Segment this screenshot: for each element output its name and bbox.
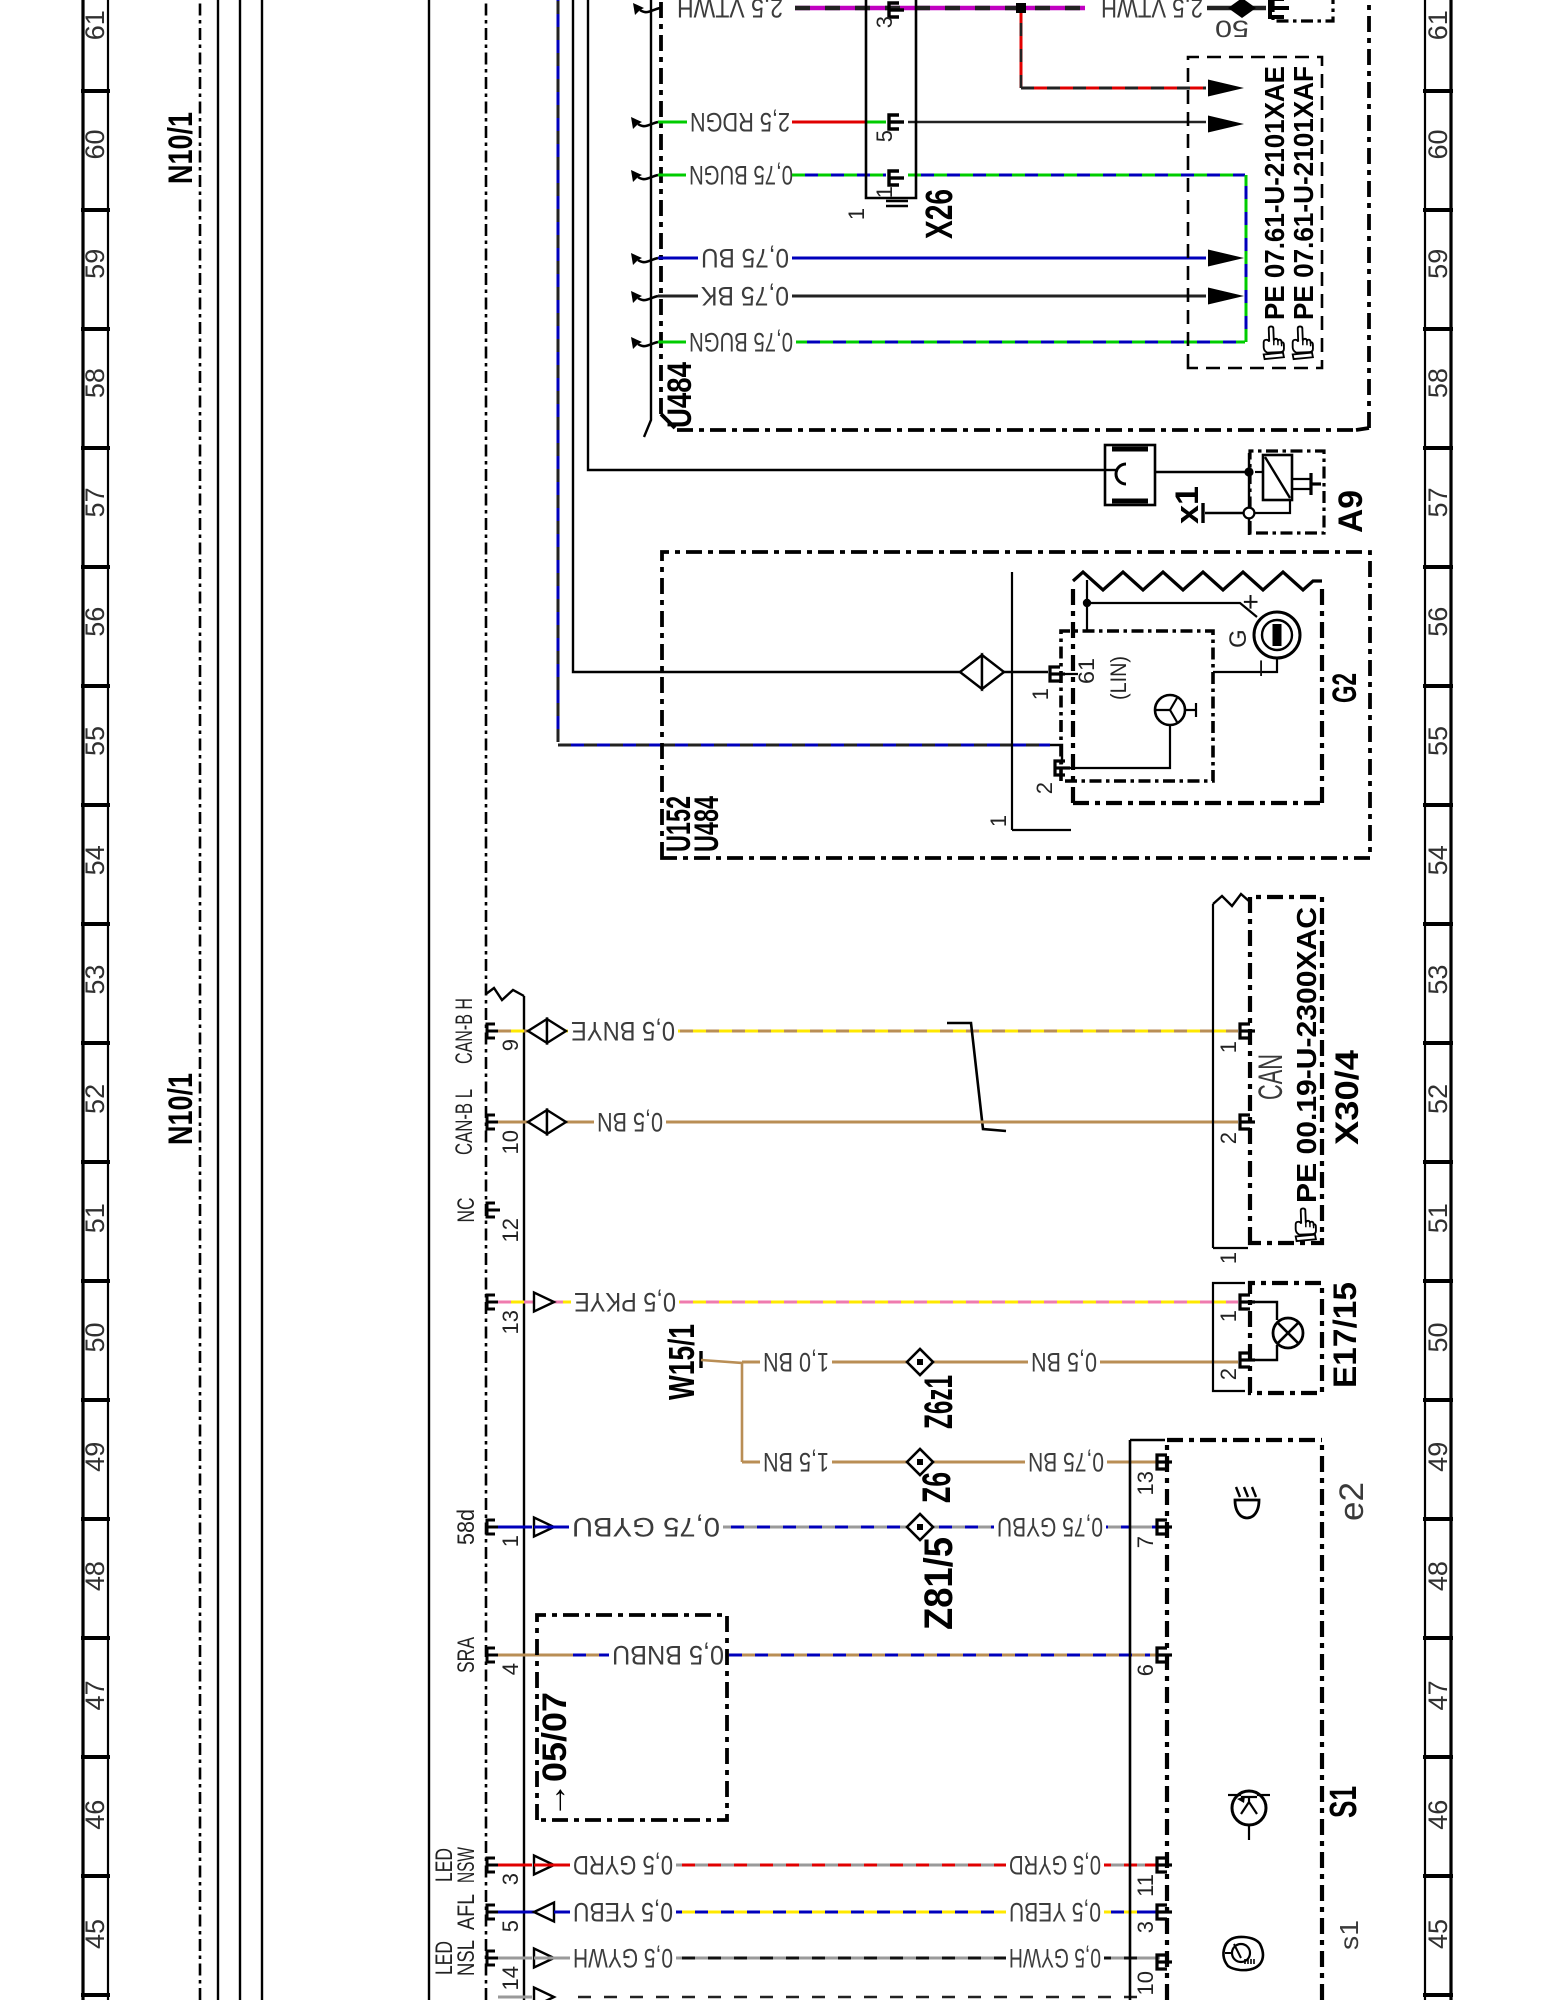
svg-text:59: 59 <box>1423 249 1453 279</box>
transistor icon in S1 <box>1228 1791 1270 1840</box>
S1 pin 6 <box>1133 1648 1172 1676</box>
svg-text:61: 61 <box>1074 658 1099 684</box>
G2 pin 2 <box>1032 761 1070 794</box>
grid ruler top <box>80 0 110 2000</box>
svg-text:58d: 58d <box>453 1509 480 1545</box>
svg-text:A9: A9 <box>1332 490 1370 533</box>
svg-text:58: 58 <box>1423 368 1453 398</box>
arrow into PE (0,75 BK) <box>1208 288 1244 305</box>
svg-text:NC: NC <box>453 1198 480 1223</box>
svg-text:59: 59 <box>80 249 110 279</box>
svg-text:56: 56 <box>80 607 110 637</box>
svg-text:0,5 BNYE: 0,5 BNYE <box>571 1016 675 1046</box>
G2 inner regulator box (dash-dot) <box>1061 631 1213 781</box>
svg-text:50: 50 <box>1423 1322 1453 1352</box>
svg-text:SRA: SRA <box>453 1637 480 1673</box>
connector X30/4 box (dash-dot) <box>1250 897 1322 1243</box>
hand icon PE line 2 <box>1293 326 1313 359</box>
svg-text:W15/1: W15/1 <box>661 1324 702 1400</box>
wire 2,5 VTWH (terminal 50 feed) <box>633 0 1266 23</box>
X26 pin 3 <box>872 3 904 28</box>
svg-text:4: 4 <box>498 1663 523 1675</box>
wire LED NSL 0,5 GYWH (pin 14 to S1 pin 10) <box>498 1943 1160 1973</box>
svg-text:1,0 BN: 1,0 BN <box>763 1347 829 1377</box>
svg-text:1: 1 <box>498 1535 523 1547</box>
svg-text:45: 45 <box>80 1919 110 1949</box>
svg-text:0,75 GYBU: 0,75 GYBU <box>572 1512 720 1542</box>
svg-text:46: 46 <box>1423 1800 1453 1830</box>
connector X26 <box>844 0 916 220</box>
N10/1 connector strip line <box>428 0 430 2000</box>
svg-text:0,5 PKYE: 0,5 PKYE <box>574 1287 676 1317</box>
arrow into PE (black from X26 pin 5) <box>1208 116 1244 133</box>
svg-text:X26: X26 <box>919 189 961 239</box>
svg-text:52: 52 <box>80 1084 110 1114</box>
E17/15 pin 1 <box>1216 1295 1255 1322</box>
svg-text:2,5 VTWH: 2,5 VTWH <box>677 0 783 23</box>
U484 inner solid boundary line <box>644 0 651 437</box>
svg-text:CAN-B L: CAN-B L <box>451 1089 478 1155</box>
svg-text:48: 48 <box>80 1561 110 1591</box>
svg-text:1,5 BN: 1,5 BN <box>763 1447 829 1477</box>
A9 supply stub with bar <box>1203 503 1243 523</box>
S1 pin 11 <box>1133 1858 1172 1897</box>
svg-text:U484: U484 <box>661 362 699 428</box>
hand icon PE line 1 <box>1264 326 1284 359</box>
E17/15 pin 2 <box>1216 1353 1255 1380</box>
svg-text:61: 61 <box>1423 10 1453 40</box>
svg-text:2: 2 <box>1216 1132 1241 1144</box>
A9 solenoid valve symbol <box>1255 455 1321 513</box>
svg-text:1: 1 <box>844 208 869 220</box>
svg-text:46: 46 <box>80 1800 110 1830</box>
svg-text:1: 1 <box>1028 688 1053 700</box>
svg-text:S1: S1 <box>1323 1786 1365 1818</box>
G2 regulator symbol <box>1060 674 1196 768</box>
svg-text:48: 48 <box>1423 1561 1453 1591</box>
twisted pair symbol CAN wires <box>947 1023 1006 1131</box>
clamp connection point x1 <box>1103 445 1155 505</box>
svg-text:50: 50 <box>80 1322 110 1352</box>
S1 pin 7 <box>1133 1520 1172 1548</box>
svg-text:NSW: NSW <box>453 1847 480 1883</box>
partial wire row at page edge (cropped) <box>498 1988 1150 2000</box>
N10/1 internal bus line 3 <box>261 0 263 2000</box>
N10/1 pin 9 (CAN-B H) <box>451 998 523 1064</box>
wire CAN-B L 0,5 BN (pin 10 to X30/4 pin 2) <box>498 1107 1238 1137</box>
svg-text:3: 3 <box>872 16 897 28</box>
svg-text:X30/4: X30/4 <box>1329 1050 1365 1145</box>
svg-text:G2: G2 <box>1326 673 1364 703</box>
X30/4 pin 2 <box>1216 1115 1255 1144</box>
svg-text:9: 9 <box>498 1039 523 1051</box>
N10/1 pin 10 (CAN-B L) <box>451 1089 523 1155</box>
svg-text:54: 54 <box>80 845 110 875</box>
wire tap W15/1 <box>701 1351 745 1462</box>
headlight switch icon in s1 <box>1223 1937 1263 1970</box>
E17/15 connector line <box>1213 1283 1245 1391</box>
E17/15 lamp symbol <box>1252 1302 1303 1360</box>
G2 generator symbol (G circle) <box>1225 594 1300 676</box>
splice Z6z1 <box>907 1349 933 1375</box>
N10/1 pin 5 (AFL) <box>453 1894 523 1932</box>
arrow into PE (0,75 BU) <box>1208 250 1244 267</box>
svg-text:6: 6 <box>1133 1664 1158 1676</box>
wire 0,5 PKYE (pin 13 to E17/15 pin 1) <box>498 1287 1238 1317</box>
svg-text:0,5 GYWH: 0,5 GYWH <box>573 1943 673 1973</box>
N10/1 internal bus line 2 <box>239 0 241 2000</box>
svg-text:CAN-B H: CAN-B H <box>451 998 478 1064</box>
X30/4 pin 1 <box>1216 1024 1255 1053</box>
svg-text:AFL: AFL <box>453 1894 480 1930</box>
wire black from X26 pin 5 to PE connector <box>908 121 1206 123</box>
N10/1 pin 4 (SRA) <box>453 1637 523 1675</box>
svg-text:3: 3 <box>1133 1921 1158 1933</box>
svg-text:Z81/5: Z81/5 <box>917 1537 961 1630</box>
splice diamond on terminal 50 lead <box>1228 0 1256 18</box>
G2 pin 1 (61 LIN) <box>1028 656 1131 700</box>
svg-text:NSL: NSL <box>453 1940 480 1976</box>
continuation box 05/07 <box>536 1615 727 1820</box>
N10/1 pin 13 (terminal) <box>487 1295 523 1334</box>
svg-text:47: 47 <box>1423 1680 1453 1710</box>
svg-text:7: 7 <box>1133 1536 1158 1548</box>
N10/1 pin 3 (LED NSW) <box>431 1847 523 1885</box>
svg-text:53: 53 <box>1423 965 1453 995</box>
svg-text:Z6z1: Z6z1 <box>917 1375 961 1429</box>
N10/1 pin 14 (LED NSL) <box>431 1940 523 1990</box>
wire 2,5 RDGN (to X26 pin 5) <box>631 107 886 137</box>
wire 1,0 BN / 0,5 BN (W15/1 to E17/15 pin 2) <box>742 1347 1238 1377</box>
svg-text:1: 1 <box>1216 1252 1241 1264</box>
grid ruler bottom <box>1423 0 1453 2000</box>
wire CAN-B H 0,5 BNYE (pin 9 to X30/4 pin 1) <box>498 1016 1238 1046</box>
svg-text:+: + <box>1235 594 1266 610</box>
wire 2,5 RDBK branch to PE connector <box>1021 13 1206 88</box>
svg-text:51: 51 <box>1423 1203 1453 1233</box>
S1 pin 13 <box>1133 1455 1172 1495</box>
svg-text:0,5 BN: 0,5 BN <box>597 1107 663 1137</box>
svg-text:G: G <box>1225 629 1252 648</box>
A9 junction dot <box>1244 467 1253 476</box>
svg-text:2: 2 <box>1032 782 1057 794</box>
G2 internal feed line with junction <box>1083 580 1277 672</box>
svg-text:PE 00.19-U-2300XAC: PE 00.19-U-2300XAC <box>1291 907 1322 1203</box>
wire x1 to A9 <box>1155 471 1247 473</box>
coupler box U152/U484 (dash-dot boundary) <box>662 552 1370 858</box>
wire AFL 0,5 YEBU (pin 5 to S1 pin 3) <box>498 1897 1160 1927</box>
svg-text:0,5 BN: 0,5 BN <box>1031 1347 1097 1377</box>
N10/1 bottom boundary with pins (dash-dot) <box>485 0 488 2000</box>
wire BUBK (from off-page to G2 pin 2) <box>558 0 1062 764</box>
splice Z81/5 <box>907 1514 933 1540</box>
fog lamp icon in e2 <box>1235 1487 1259 1518</box>
svg-text:N10/1: N10/1 <box>162 112 200 184</box>
svg-text:0,75 BK: 0,75 BK <box>701 281 789 311</box>
svg-text:N10/1: N10/1 <box>162 1073 200 1145</box>
junction on VTWH wire (branch to PE) <box>1016 3 1026 13</box>
wire LIN (solid black from off-page to G2 pin 1) <box>573 0 1048 689</box>
arrow into PE (RDBK) <box>1208 80 1244 97</box>
terminal 50 dash-dot box (cropped) <box>1273 0 1333 21</box>
svg-text:49: 49 <box>80 1442 110 1472</box>
hand icon PE 00.19 <box>1296 1208 1316 1241</box>
svg-text:PE 07.61-U-2101XAE: PE 07.61-U-2101XAE <box>1259 66 1290 320</box>
svg-text:50: 50 <box>1215 15 1249 42</box>
wire 0,75 BK (to PE connector) <box>631 281 1206 311</box>
svg-text:2: 2 <box>1216 1368 1241 1380</box>
svg-text:0,5 YEBU: 0,5 YEBU <box>573 1897 673 1927</box>
svg-text:Z6: Z6 <box>915 1472 959 1503</box>
svg-text:(LIN): (LIN) <box>1106 656 1131 700</box>
svg-text:2,5 RDGN: 2,5 RDGN <box>690 107 790 137</box>
X26 pin 1 <box>872 171 904 198</box>
svg-text:45: 45 <box>1423 1919 1453 1949</box>
svg-text:57: 57 <box>1423 487 1453 517</box>
svg-text:e2: e2 <box>1333 1482 1371 1521</box>
switch S1/e2 box (dash-dot) <box>1167 1440 1322 2000</box>
svg-text:0,75 GYBU: 0,75 GYBU <box>997 1512 1103 1542</box>
X30/4 connector line 1 with zigzag <box>1213 894 1250 1264</box>
wire SRA 0,5 BNBU (pin 4 to S1 pin 6) <box>498 1640 1160 1670</box>
switch S1 connector line <box>1130 1440 1165 2000</box>
svg-text:61: 61 <box>80 10 110 40</box>
svg-text:CAN: CAN <box>1252 1054 1290 1100</box>
svg-text:1: 1 <box>872 186 897 198</box>
component box A9 (dash-dot) <box>1250 451 1324 533</box>
wire 58d 0,75 GYBU (pin 1 to S1 pin 7) <box>498 1512 1160 1542</box>
svg-text:PE 07.61-U-2101XAF: PE 07.61-U-2101XAF <box>1288 66 1319 320</box>
wire 0,75 BUGN (to X26 pin 1) <box>631 160 886 190</box>
svg-text:60: 60 <box>1423 129 1453 159</box>
svg-text:56: 56 <box>1423 607 1453 637</box>
svg-text:–: – <box>1243 660 1274 676</box>
N10/1 pin 1 (58d) <box>453 1509 523 1547</box>
svg-text:13: 13 <box>1133 1471 1158 1495</box>
svg-text:3: 3 <box>498 1873 523 1885</box>
X26 pin 5 <box>872 115 904 142</box>
wire 1,5 BN / 0,75 BN (W15/1 to S1 pin 13) <box>742 1447 1160 1477</box>
wire LED NSW 0,5 GYRD (pin 3 to S1 pin 11) <box>498 1850 1160 1880</box>
coupler box U484 (dash-dot boundary) <box>661 0 1369 430</box>
svg-text:0,75 BU: 0,75 BU <box>701 243 789 273</box>
G2 connector line 1 <box>986 572 1071 830</box>
svg-text:0,5 YEBU: 0,5 YEBU <box>1009 1897 1101 1927</box>
svg-text:1: 1 <box>1216 1310 1241 1322</box>
svg-text:49: 49 <box>1423 1442 1453 1472</box>
svg-text:5: 5 <box>498 1920 523 1932</box>
svg-text:→05/07: →05/07 <box>536 1692 574 1818</box>
svg-text:0,5 GYRD: 0,5 GYRD <box>1009 1850 1101 1880</box>
S1 pin 3 <box>1133 1905 1172 1933</box>
svg-text:12: 12 <box>498 1218 523 1242</box>
svg-text:1: 1 <box>986 815 1011 827</box>
N10/1 internal bus line 1 <box>217 0 219 2000</box>
control unit N10/1 top boundary (dash-dot) <box>199 0 202 2000</box>
svg-text:x1: x1 <box>1169 486 1205 524</box>
splice Z6 <box>907 1449 933 1475</box>
svg-text:s1: s1 <box>1334 1920 1364 1950</box>
svg-text:14: 14 <box>498 1966 523 1990</box>
svg-text:5: 5 <box>872 130 897 142</box>
svg-text:U484: U484 <box>688 796 726 852</box>
svg-text:1: 1 <box>1216 1041 1241 1053</box>
svg-text:2,5 VTWH: 2,5 VTWH <box>1101 0 1203 23</box>
lamp E17/15 box (dash-dot) <box>1250 1283 1322 1393</box>
svg-text:57: 57 <box>80 487 110 517</box>
svg-text:0,5 GYRD: 0,5 GYRD <box>573 1850 673 1880</box>
svg-text:55: 55 <box>80 726 110 756</box>
svg-text:58: 58 <box>80 368 110 398</box>
svg-text:0,75 BUGN: 0,75 BUGN <box>689 327 793 357</box>
N10/1 pin 12 (NC) <box>453 1198 523 1243</box>
wire to clamp x1 (solid black from off-page) <box>588 0 1103 470</box>
svg-text:52: 52 <box>1423 1084 1453 1114</box>
svg-text:55: 55 <box>1423 726 1453 756</box>
A9 open terminal circle <box>1244 508 1255 519</box>
svg-text:54: 54 <box>1423 845 1453 875</box>
svg-text:47: 47 <box>80 1680 110 1710</box>
N10/1 connector strip lower line (left part) with break zigzag <box>486 988 524 2000</box>
svg-text:0,75 BUGN: 0,75 BUGN <box>689 160 793 190</box>
svg-text:0,5 BNBU: 0,5 BNBU <box>612 1640 724 1670</box>
svg-text:0,5 GYWH: 0,5 GYWH <box>1009 1943 1101 1973</box>
svg-text:0,75 BN: 0,75 BN <box>1028 1447 1104 1477</box>
A9 top connection line <box>1248 453 1250 535</box>
generator G2 box (dash-dot, zigzag right edge) <box>1073 572 1322 803</box>
wire 0,75 BU (to PE connector) <box>631 243 1206 273</box>
svg-text:10: 10 <box>1133 1971 1158 1995</box>
terminal 50 connector bracket <box>1270 0 1284 17</box>
svg-text:13: 13 <box>498 1310 523 1334</box>
svg-text:53: 53 <box>80 965 110 995</box>
svg-text:60: 60 <box>80 129 110 159</box>
ground reference box PE 07.61 (dashed) <box>1188 57 1322 368</box>
svg-text:51: 51 <box>80 1203 110 1233</box>
svg-text:11: 11 <box>1133 1874 1158 1897</box>
svg-text:10: 10 <box>498 1130 523 1154</box>
svg-text:E17/15: E17/15 <box>1327 1282 1363 1388</box>
S1 pin 10 <box>1133 1955 1172 1995</box>
wire 0,75 BUGN continuation (X26 pin 1, U-turn back up) <box>631 175 1246 357</box>
